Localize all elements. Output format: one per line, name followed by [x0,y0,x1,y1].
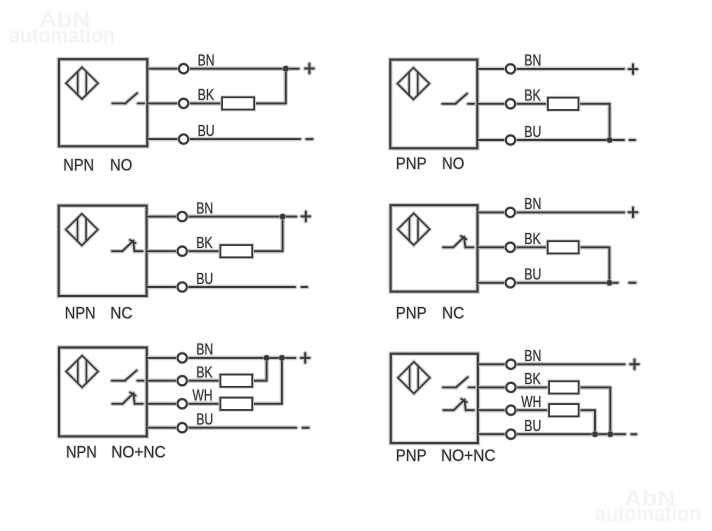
label PNP [396,305,427,323]
label BN [198,53,215,70]
wire BU (blue) to - supply [147,285,296,290]
svg-text:NO: NO [110,156,132,174]
load resistor on BK [548,98,579,110]
switch NO contact [112,93,144,103]
label NO [442,155,464,173]
junction dot BK on BU line [607,431,614,438]
+ supply symbol [302,212,311,222]
svg-text:BK: BK [524,371,541,388]
junction dot WH on BN line [279,355,286,362]
terminal circle BN [179,64,188,73]
svg-text:BU: BU [524,124,541,141]
label BK [198,87,215,104]
sensor body box (pnp-nonc) [391,354,478,443]
label WH [193,388,213,405]
sensor body box (npn-nc) [59,206,147,296]
terminal circle BN [506,208,515,217]
wire BK load to BU junction [578,104,609,140]
label BU [524,124,541,141]
switch NC contact [112,393,143,405]
wire BK (black) switch to load [147,101,223,106]
label BK [524,88,541,105]
wire BK (black) switch to load [477,102,549,107]
wire BK load to BN junction [254,69,286,104]
load resistor on BK [549,381,579,393]
wire BN (brown) to + supply [478,362,625,367]
junction dot BK on BN line [263,355,270,362]
svg-text:BU: BU [196,412,213,429]
terminal circle WH [506,406,515,415]
terminal circle BK [178,247,187,256]
label BN [524,196,541,213]
sensor logo diamond (pnp-no) [397,68,429,100]
junction dot on BU line [606,279,613,286]
svg-text:BN: BN [524,196,541,213]
wire BU (blue) to - supply [478,432,625,437]
wire BU (blue) to - supply [477,138,624,143]
terminal circle BN [178,353,187,362]
+ supply symbol [629,208,638,218]
wire WH (white) switch to load [478,408,550,413]
label BU [524,267,541,284]
wire BK load to BU junction [579,387,611,434]
svg-text:WH: WH [521,394,541,411]
switch NC contact [443,236,474,248]
junction dot on BU line [606,137,613,144]
wire BU (blue) to - supply [147,425,296,430]
terminal circle BK [506,243,515,252]
wire BK (black) switch to load [147,378,222,383]
wire BK load to BN junction [252,217,282,252]
svg-text:automation: automation [9,23,115,48]
terminal circle BK [179,99,188,108]
terminal circle BN [506,360,515,369]
wire BN (brown) to + supply [478,210,625,215]
+ supply symbol [630,360,639,370]
label PNP [396,155,427,173]
switch NO contact [112,371,144,381]
- supply symbol [306,137,312,142]
sensor body box (npn-nonc) [59,348,147,437]
svg-text:NO: NO [442,155,464,173]
terminal circle WH [178,399,187,408]
wire BK load to BU junction [579,247,610,282]
svg-text:BK: BK [524,231,541,248]
svg-text:NO+NC: NO+NC [111,443,166,461]
label BU [524,418,541,435]
terminal circle BK [178,376,187,385]
load resistor on WH [549,404,579,416]
- supply symbol [629,280,635,285]
switch NO contact [443,377,475,387]
wire BN (brown) to + supply [147,356,295,361]
sensor body box (npn-no) [59,59,147,146]
switch NC contact [443,399,474,411]
terminal circle BK [506,99,515,108]
terminal circle BU [506,430,515,439]
terminal circle BN [178,212,187,221]
label BK [196,235,213,252]
svg-text:BU: BU [524,267,541,284]
label NC [110,305,132,323]
svg-text:NC: NC [442,305,464,323]
wire BK load to BN junction [252,358,266,381]
sensor body box (pnp-no) [390,60,477,149]
label WH [521,394,541,411]
wire BK (black) switch to load [147,249,222,254]
terminal circle BU [178,423,187,432]
switch NO contact [442,94,474,104]
sensor logo diamond (npn-nonc) [66,356,98,388]
watermark top-left [9,7,115,48]
label BK [524,231,541,248]
junction dot WH on BU line [592,431,599,438]
svg-text:BU: BU [196,271,213,288]
wire WH (white) switch to load [147,402,222,407]
svg-text:WH: WH [193,388,213,405]
sensor logo diamond (pnp-nonc) [398,362,430,394]
wire BN (brown) to + supply [477,67,624,72]
svg-text:BK: BK [196,235,213,252]
wire WH load to BN junction [252,358,282,404]
svg-text:BU: BU [524,418,541,435]
label BN [196,342,213,359]
- supply symbol [631,432,636,437]
- supply symbol [302,285,308,290]
terminal circle BK [506,383,515,392]
switch NC contact [112,240,143,252]
terminal circle BU [506,135,515,144]
svg-text:BK: BK [196,365,213,382]
svg-text:BK: BK [198,87,215,104]
load resistor on BK [220,375,252,387]
svg-text:NPN: NPN [65,305,96,323]
svg-text:PNP: PNP [396,305,427,323]
svg-text:PNP: PNP [396,155,427,173]
wire BK (black) switch to load [478,385,550,390]
svg-text:BK: BK [524,88,541,105]
svg-text:BN: BN [524,53,541,70]
sensor logo diamond (pnp-nc) [398,213,430,245]
watermark bottom-right [595,486,701,526]
- supply symbol [303,425,309,430]
load resistor on BK [220,245,252,257]
sensor logo diamond (npn-nc) [66,214,98,246]
wire WH load to BU junction [579,410,595,434]
svg-text:BU: BU [198,123,215,140]
junction dot on BN line [282,65,289,72]
svg-text:PNP: PNP [396,447,427,465]
svg-text:automation: automation [595,501,701,526]
svg-text:BN: BN [196,342,213,359]
terminal circle BU [506,278,515,287]
label NO+NC [441,447,496,465]
label NPN [66,443,97,461]
terminal circle BU [179,135,188,144]
label BU [196,412,213,429]
load resistor on BK [222,97,254,109]
load resistor on WH [220,398,252,410]
label BN [524,348,541,365]
- supply symbol [630,138,635,143]
label NPN [65,305,96,323]
+ supply symbol [301,353,310,363]
+ supply symbol [629,64,638,74]
svg-text:BN: BN [196,200,213,217]
+ supply symbol [305,64,314,74]
wire BN (brown) to + supply [147,66,298,71]
svg-text:NPN: NPN [66,443,97,461]
label BN [196,200,213,217]
svg-text:NO+NC: NO+NC [441,447,496,465]
svg-text:BN: BN [524,348,541,365]
label PNP [396,447,427,465]
svg-text:NPN: NPN [63,156,94,174]
wire BK (black) switch to load [478,245,549,250]
wire BN (brown) to + supply [147,214,297,219]
label BU [196,271,213,288]
load resistor on BK [548,241,579,253]
label NO [110,156,132,174]
label BK [196,365,213,382]
label NC [442,305,464,323]
sensor logo diamond (npn-no) [66,67,98,99]
label BN [524,53,541,70]
svg-text:BN: BN [198,53,215,70]
junction dot on BN line [279,213,286,220]
label NPN [63,156,94,174]
terminal circle BN [506,64,515,73]
terminal circle BU [178,282,187,291]
sensor body box (pnp-nc) [391,205,478,291]
label BK [524,371,541,388]
wire BU (blue) to - supply [478,281,618,286]
label NO+NC [111,443,166,461]
label BU [198,123,215,140]
wire BU (blue) to - supply [147,137,300,142]
svg-text:NC: NC [110,305,132,323]
